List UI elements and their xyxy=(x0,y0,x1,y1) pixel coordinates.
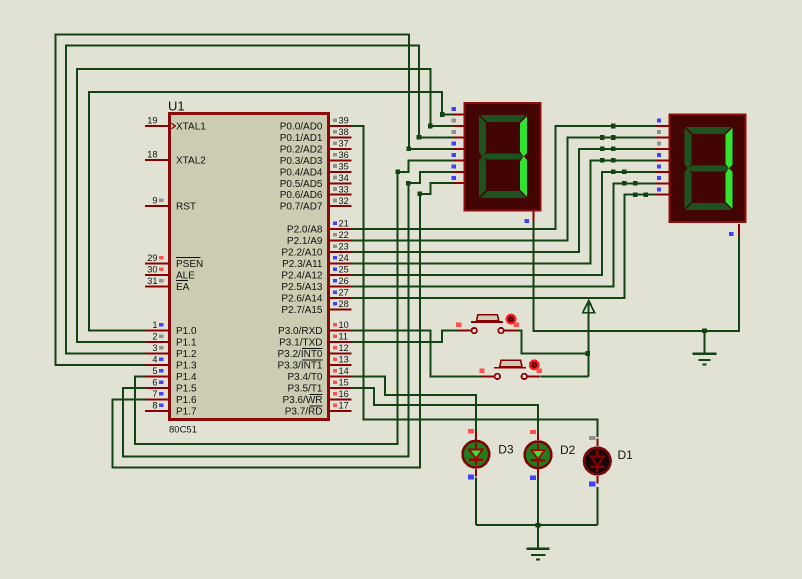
svg-text:2: 2 xyxy=(152,332,157,342)
svg-text:P0.1/AD1: P0.1/AD1 xyxy=(280,133,323,144)
svg-text:14: 14 xyxy=(339,366,349,376)
U1 pin 30 ALE (left) xyxy=(145,265,195,282)
svg-text:P2.2/A10: P2.2/A10 xyxy=(281,248,323,259)
junction on P1.6 riser xyxy=(418,192,423,197)
push button SW1 xyxy=(456,315,519,334)
U1 pin 10 P3.0/RXD (right) xyxy=(278,320,351,337)
svg-text:XTAL1: XTAL1 xyxy=(176,122,206,133)
wire P3.5/T1 to LED D2 anode xyxy=(352,388,539,433)
svg-text:P1.2: P1.2 xyxy=(176,349,197,360)
U1 pin 7 P1.6 (left) xyxy=(145,389,197,406)
U1 pin 35 P0.4/AD4 (right) xyxy=(280,162,352,179)
svg-text:18: 18 xyxy=(147,150,157,160)
U1 pin 37 P0.2/AD2 (right) xyxy=(280,139,352,156)
wire P3.4/T0 to LED D3 anode xyxy=(352,377,476,433)
svg-text:32: 32 xyxy=(339,196,349,206)
junction at right ground xyxy=(702,329,707,334)
svg-text:P1.5: P1.5 xyxy=(176,384,197,395)
wire P2.2 to DS2 segment pin xyxy=(352,147,656,252)
7-segment display DS1 body xyxy=(465,103,541,211)
svg-text:D3: D3 xyxy=(498,443,514,457)
wire P3.1/TXD to button SW1 left contact xyxy=(352,331,459,342)
svg-text:1: 1 xyxy=(152,320,157,330)
svg-text:23: 23 xyxy=(339,242,349,252)
wire P1.5 to DS1 segment pin xyxy=(123,172,454,457)
U1 pin 1 P1.0 (left) xyxy=(145,320,197,337)
svg-text:P2.6/A14: P2.6/A14 xyxy=(281,294,323,305)
svg-text:XTAL2: XTAL2 xyxy=(176,156,206,167)
chip U1 value label 80C51 xyxy=(169,425,197,436)
wire P2.1 to DS2 segment pin xyxy=(352,135,656,240)
junction at bottom ground xyxy=(536,523,541,528)
wire P1.4 to DS1 segment pin xyxy=(135,160,454,444)
U1 pin 3 P1.2 (left) xyxy=(145,343,197,360)
U1 pin 9 RST (left) xyxy=(145,196,196,213)
svg-text:21: 21 xyxy=(339,219,349,229)
svg-text:P2.7/A15: P2.7/A15 xyxy=(281,305,323,316)
chip U1 reference label xyxy=(168,99,185,114)
U1 pin 38 P0.1/AD1 (right) xyxy=(280,127,352,144)
U1 pin 11 P3.1/TXD (right) xyxy=(279,332,351,349)
U1 pin 33 P0.6/AD6 (right) xyxy=(280,184,352,201)
svg-text:P1.1: P1.1 xyxy=(176,338,197,349)
svg-text:22: 22 xyxy=(339,230,349,240)
svg-text:P3.2/INT0: P3.2/INT0 xyxy=(277,349,322,360)
U1 pin 23 P2.2/A10 (right) xyxy=(281,242,351,259)
ground (right) xyxy=(693,331,717,366)
svg-text:P1.0: P1.0 xyxy=(176,326,197,337)
svg-text:U1: U1 xyxy=(168,99,185,114)
wire DS1 common pin to ground and DS2 common xyxy=(534,222,740,331)
junction on input terminal stem xyxy=(585,351,590,356)
wire P1.1 to DS1 segment pin xyxy=(77,69,454,342)
7-segment display DS2 body xyxy=(670,115,746,223)
wire LED D3 cathode to rail xyxy=(475,477,477,525)
svg-text:19: 19 xyxy=(147,116,157,126)
U1 pin 28 P2.7/A15 (right) xyxy=(281,299,351,316)
svg-text:PSEN: PSEN xyxy=(176,259,203,270)
U1 pin 29 PSEN (left) xyxy=(145,253,203,270)
LED D2 xyxy=(525,430,576,480)
svg-text:39: 39 xyxy=(339,116,349,126)
DS2 pin marker squares xyxy=(657,119,661,192)
svg-text:15: 15 xyxy=(339,378,349,388)
U1 pin 34 P0.5/AD5 (right) xyxy=(280,173,352,190)
U1 pin 12 P3.2/INT0 (right) xyxy=(277,343,351,360)
junction on P1.5 riser xyxy=(406,181,411,186)
DS2 segment pin stubs xyxy=(656,126,670,195)
svg-text:27: 27 xyxy=(339,288,349,298)
svg-text:4: 4 xyxy=(152,355,157,365)
junction on P1.4 riser xyxy=(395,169,400,174)
svg-text:P1.3: P1.3 xyxy=(176,361,197,372)
svg-text:6: 6 xyxy=(152,378,157,388)
svg-text:3: 3 xyxy=(152,343,157,353)
wire P2.6 to DS2 segment pin xyxy=(352,192,656,298)
U1 pin 16 P3.6/WR (right) xyxy=(282,389,351,406)
U1 pin 25 P2.4/A12 (right) xyxy=(281,265,351,282)
svg-text:10: 10 xyxy=(339,320,349,330)
svg-text:P0.7/AD7: P0.7/AD7 xyxy=(280,202,323,213)
svg-text:P2.4/A12: P2.4/A12 xyxy=(281,271,323,282)
wire P2.3 to DS2 segment pin xyxy=(352,158,656,263)
DS1 segment pin stubs xyxy=(454,115,465,184)
DS2 common pin stub xyxy=(738,224,740,236)
LED D3 xyxy=(463,429,514,479)
U1 pin 31 EA (left) xyxy=(145,276,190,293)
svg-text:31: 31 xyxy=(147,276,157,286)
U1 pin 2 P1.1 (left) xyxy=(145,332,197,349)
svg-text:P0.5/AD5: P0.5/AD5 xyxy=(280,179,323,190)
U1 pin 27 P2.6/A14 (right) xyxy=(281,288,351,305)
svg-text:P0.6/AD6: P0.6/AD6 xyxy=(280,190,323,201)
LED D1 xyxy=(584,436,633,486)
wire P2.0 to DS2 segment pin xyxy=(352,124,656,229)
U1 pin 36 P0.3/AD3 (right) xyxy=(280,150,352,167)
svg-text:24: 24 xyxy=(339,253,349,263)
wire P1.3 to DS1 segment pin xyxy=(55,35,453,365)
svg-text:13: 13 xyxy=(339,355,349,365)
U1 pin 14 P3.4/T0 (right) xyxy=(287,366,351,383)
svg-text:D2: D2 xyxy=(560,443,576,457)
DS1 pin marker squares xyxy=(452,107,456,180)
U1 pin 4 P1.3 (left) xyxy=(145,355,197,372)
U1 pin 32 P0.7/AD7 (right) xyxy=(280,196,352,213)
svg-text:D1: D1 xyxy=(618,448,634,462)
wire P1.0 to DS1 segment pin xyxy=(89,92,454,331)
U1 pin 13 P3.3/INT1 (right) xyxy=(277,355,351,372)
svg-text:P0.0/AD0: P0.0/AD0 xyxy=(280,122,323,133)
wire LED D1 cathode to rail xyxy=(596,487,598,525)
U1 pin 22 P2.1/A9 (right) xyxy=(287,230,352,247)
svg-text:P1.6: P1.6 xyxy=(176,395,197,406)
U1 pin 18 XTAL2 (left) xyxy=(145,150,206,167)
DS1 common pin stub xyxy=(533,211,535,222)
svg-text:P2.5/A13: P2.5/A13 xyxy=(281,282,323,293)
wire LED cathode rail xyxy=(476,524,597,526)
chip U1 80C51 body xyxy=(170,114,329,420)
wire P1.2 to DS1 segment pin xyxy=(66,45,454,353)
push button SW2 xyxy=(479,360,542,379)
U1 pin 8 P1.7 (left) xyxy=(145,401,197,418)
svg-text:P0.3/AD3: P0.3/AD3 xyxy=(280,156,323,167)
U1 pin 5 P1.4 (left) xyxy=(145,366,197,383)
input terminal stem wire xyxy=(588,303,590,376)
input terminal (up arrow) xyxy=(583,301,595,313)
junction at DS1 pin (P1.3) xyxy=(407,147,412,152)
DS1 digit segments xyxy=(479,115,527,198)
U1 pin 17 P3.7/RD (right) xyxy=(285,401,352,418)
DS2 common pin marker square xyxy=(729,232,733,236)
U1 pin 21 P2.0/A8 (right) xyxy=(287,219,352,236)
svg-text:P3.5/T1: P3.5/T1 xyxy=(287,384,322,395)
svg-text:P3.0/RXD: P3.0/RXD xyxy=(278,326,322,337)
svg-text:29: 29 xyxy=(147,253,157,263)
wire P0.0/AD0 to LED D1 anode xyxy=(352,126,598,437)
svg-text:7: 7 xyxy=(152,389,157,399)
svg-text:P2.0/A8: P2.0/A8 xyxy=(287,225,323,236)
svg-text:P2.1/A9: P2.1/A9 xyxy=(287,236,323,247)
svg-text:35: 35 xyxy=(339,162,349,172)
svg-text:P3.3/INT1: P3.3/INT1 xyxy=(277,361,322,372)
svg-text:28: 28 xyxy=(339,299,349,309)
svg-text:16: 16 xyxy=(339,389,349,399)
U1 pin 24 P2.3/A11 (right) xyxy=(282,253,351,270)
svg-text:RST: RST xyxy=(176,202,196,213)
wire P1.6 to DS1 segment pin xyxy=(113,183,454,467)
svg-text:P3.7/RD: P3.7/RD xyxy=(285,407,323,418)
svg-text:37: 37 xyxy=(339,139,349,149)
svg-text:5: 5 xyxy=(152,366,157,376)
svg-text:P1.4: P1.4 xyxy=(176,372,197,383)
DS1 common pin marker square xyxy=(525,219,529,223)
svg-text:9: 9 xyxy=(152,196,157,206)
junction at DS1 pin (P1.0) xyxy=(440,112,445,117)
U1 pin 6 P1.5 (left) xyxy=(145,378,197,395)
U1 pin 39 P0.0/AD0 (right) xyxy=(280,116,352,133)
svg-text:33: 33 xyxy=(339,184,349,194)
svg-text:P1.7: P1.7 xyxy=(176,407,197,418)
wire button SW1 right contact to node xyxy=(517,331,588,354)
svg-text:P0.4/AD4: P0.4/AD4 xyxy=(280,167,323,178)
wire LED D2 cathode to rail xyxy=(537,478,539,525)
U1 pin 15 P3.5/T1 (right) xyxy=(287,378,351,395)
svg-text:8: 8 xyxy=(152,401,157,411)
ground (bottom) xyxy=(527,525,550,560)
svg-text:P3.4/T0: P3.4/T0 xyxy=(287,372,322,383)
svg-text:80C51: 80C51 xyxy=(169,425,197,436)
junction at DS1 pin (P1.1) xyxy=(428,124,433,129)
svg-text:ALE: ALE xyxy=(176,271,195,282)
svg-text:12: 12 xyxy=(339,343,349,353)
svg-text:P2.3/A11: P2.3/A11 xyxy=(282,259,323,270)
svg-text:36: 36 xyxy=(339,150,349,160)
junction at DS1 pin (P1.2) xyxy=(417,135,422,140)
svg-text:EA: EA xyxy=(176,282,190,293)
svg-text:P3.1/TXD: P3.1/TXD xyxy=(279,338,322,349)
wire P3.0/RXD to button SW2 left contact xyxy=(352,331,482,377)
svg-text:P3.6/WR: P3.6/WR xyxy=(282,395,322,406)
wire button SW2 right contact to input terminal stem xyxy=(540,375,588,377)
svg-text:P0.2/AD2: P0.2/AD2 xyxy=(280,144,323,155)
U1 pin 26 P2.5/A13 (right) xyxy=(281,276,351,293)
svg-text:11: 11 xyxy=(339,332,349,342)
svg-text:38: 38 xyxy=(339,127,349,137)
wire P2.4 to DS2 segment pin xyxy=(352,170,656,276)
U1 XTAL1 clock input marker xyxy=(172,123,176,129)
svg-text:30: 30 xyxy=(147,265,157,275)
DS2 digit segments xyxy=(685,127,733,210)
wire P2.5 to DS2 segment pin xyxy=(352,181,656,287)
U1 pin 19 XTAL1 (left) xyxy=(145,116,206,133)
svg-text:34: 34 xyxy=(339,173,349,183)
svg-text:17: 17 xyxy=(339,401,349,411)
svg-text:25: 25 xyxy=(339,265,349,275)
svg-text:26: 26 xyxy=(339,276,349,286)
